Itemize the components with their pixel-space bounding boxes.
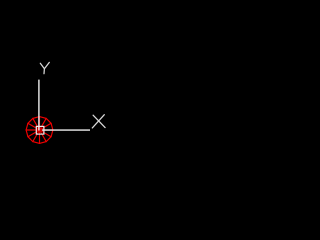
Y axis line	[38, 80, 40, 131]
wheel spokes	[40, 129, 53, 131]
wheel rim	[26, 117, 53, 144]
origin marker wheel (red 12-spoke)	[26, 117, 53, 144]
X axis line	[42, 129, 90, 131]
X axis label	[92, 115, 105, 128]
Y axis label	[40, 62, 49, 73]
origin square	[36, 126, 44, 134]
origin hub (red fill at spoke convergence)	[37, 128, 42, 133]
